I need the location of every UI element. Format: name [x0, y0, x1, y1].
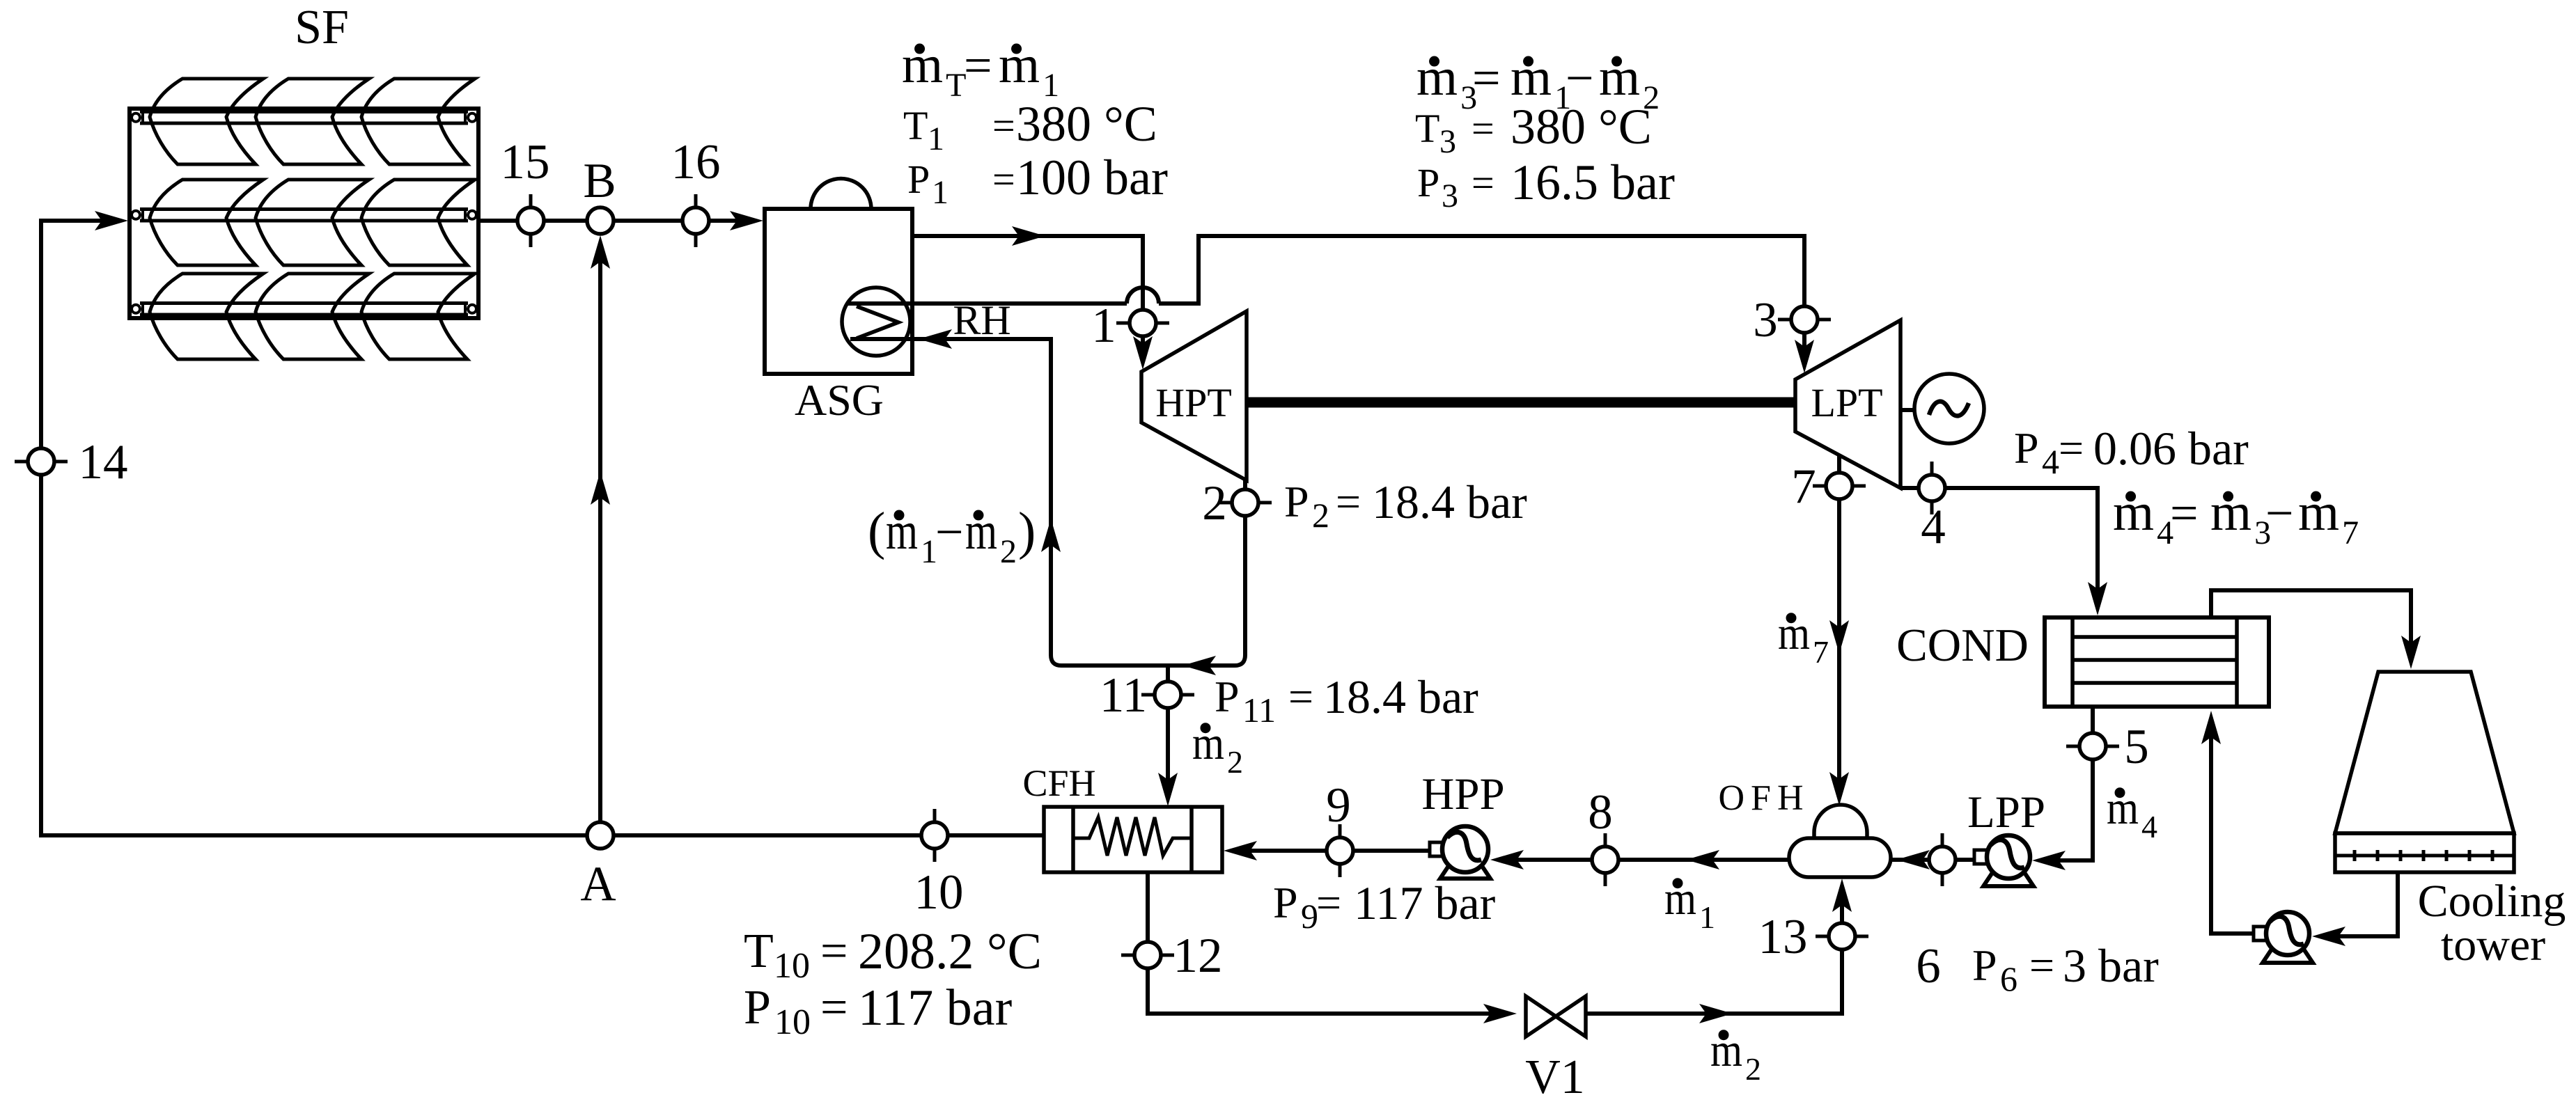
node 12	[1121, 942, 1174, 968]
svg-text:m: m	[2298, 483, 2339, 542]
svg-text:SF: SF	[295, 1, 349, 54]
turbine LPT	[1795, 320, 1900, 488]
svg-text:OFH: OFH	[1718, 778, 1809, 818]
label m2 after V1	[1710, 1023, 1761, 1087]
label 8	[1588, 785, 1613, 840]
svg-text:=: =	[2170, 485, 2199, 541]
svg-text:4: 4	[2141, 809, 2157, 844]
svg-text:15: 15	[501, 135, 550, 189]
svg-text:LPT: LPT	[1811, 380, 1882, 425]
svg-text:m: m	[999, 36, 1040, 94]
svg-text:18.4 bar: 18.4 bar	[1372, 475, 1527, 528]
pump LPP	[1974, 835, 2034, 886]
label P9=117 bar	[1273, 876, 1496, 936]
svg-text:ASG: ASG	[795, 375, 884, 425]
svg-text:3 bar: 3 bar	[2063, 939, 2159, 992]
condenser COND	[2045, 617, 2269, 707]
svg-text:8: 8	[1588, 785, 1613, 840]
node 16	[682, 194, 709, 247]
label 3	[1753, 293, 1778, 347]
node 9	[1327, 824, 1353, 877]
svg-text:11: 11	[1100, 668, 1147, 723]
svg-text:(: (	[868, 502, 885, 560]
label HPP	[1421, 769, 1504, 819]
svg-text:2: 2	[1745, 1051, 1761, 1087]
label T10=208.2C	[744, 923, 1042, 986]
label CFH	[1022, 762, 1095, 804]
label 15	[501, 135, 550, 189]
label HPT	[1155, 380, 1232, 425]
label 2	[1202, 476, 1227, 530]
svg-text:P: P	[1284, 477, 1309, 526]
svg-text:11: 11	[1242, 691, 1276, 730]
solar field SF	[130, 79, 478, 359]
label (m1-m2)	[868, 502, 1036, 570]
svg-text:4: 4	[2042, 442, 2059, 481]
node 1	[1116, 310, 1169, 336]
svg-text:T: T	[744, 924, 774, 978]
svg-text:=: =	[2059, 423, 2084, 473]
label 7	[1791, 459, 1816, 514]
svg-text:A: A	[580, 857, 616, 911]
svg-text:2: 2	[1202, 476, 1227, 530]
svg-text:9: 9	[1326, 778, 1351, 833]
svg-text:COND: COND	[1896, 620, 2029, 671]
label P2=18.4 bar	[1284, 475, 1527, 535]
wire: ASG main steam line to node 1 and HPT	[912, 226, 1153, 370]
valve V1	[1526, 996, 1586, 1037]
cooling water pump	[2254, 912, 2313, 963]
node 14	[15, 448, 68, 475]
wire: OFH outlet to node 8 and HPP	[1490, 850, 1789, 869]
label 10	[914, 865, 964, 920]
open feedwater heater OFH	[1789, 805, 1891, 877]
svg-text:m: m	[965, 502, 997, 560]
node 6	[1929, 833, 1956, 886]
node 7	[1813, 473, 1866, 499]
svg-text:380 °C: 380 °C	[1511, 99, 1652, 155]
label P10=117bar	[744, 979, 1012, 1042]
pump HPP	[1430, 826, 1490, 879]
label LPT	[1811, 380, 1882, 425]
svg-text:=: =	[1336, 477, 1361, 526]
label 11	[1100, 668, 1147, 723]
svg-text:6: 6	[1916, 939, 1941, 993]
label B	[583, 154, 616, 208]
svg-text:117 bar: 117 bar	[1354, 876, 1496, 929]
label m7	[1778, 606, 1829, 670]
svg-text:−: −	[2265, 485, 2294, 541]
svg-text:P: P	[2014, 423, 2039, 473]
wire: feedwater main line CFH to A to SF inlet	[41, 211, 1044, 835]
svg-text:=: =	[1316, 878, 1341, 927]
svg-text:3: 3	[1753, 293, 1778, 347]
svg-text:): )	[1018, 502, 1036, 560]
label P11=18.4 bar	[1215, 670, 1478, 730]
svg-text:380 °C: 380 °C	[1016, 96, 1157, 152]
wire: cold reheat return line to RH coil	[850, 329, 1245, 675]
wire: V1 outlet m2 line to node 13 and OFH	[1586, 879, 1852, 1023]
wire: condensate line node 5 to LPP	[2032, 707, 2093, 870]
svg-text:m: m	[1416, 48, 1458, 107]
wire: LPT extraction m7 to OFH	[1829, 455, 1849, 805]
svg-text:18.4 bar: 18.4 bar	[1323, 670, 1478, 723]
svg-text:T: T	[903, 103, 928, 148]
svg-text:208.2 °C: 208.2 °C	[858, 923, 1042, 980]
label RH	[953, 297, 1010, 343]
svg-text:P: P	[1273, 878, 1298, 927]
svg-text:1: 1	[932, 174, 949, 211]
reheater RH coil	[842, 288, 914, 356]
svg-text:13: 13	[1758, 910, 1808, 964]
svg-text:HPT: HPT	[1155, 380, 1232, 425]
svg-text:m: m	[886, 502, 918, 560]
svg-text:RH: RH	[953, 297, 1010, 343]
label mT=m1 T1=380C P1=100bar	[902, 36, 1168, 211]
svg-text:=: =	[1472, 50, 1501, 106]
svg-text:P: P	[1972, 940, 1997, 990]
svg-text:=: =	[1288, 672, 1313, 721]
label m1 at node 8	[1664, 872, 1715, 935]
svg-text:16: 16	[671, 135, 721, 189]
svg-text:m: m	[2113, 483, 2154, 542]
label 6	[1916, 939, 1941, 993]
svg-text:16.5 bar: 16.5 bar	[1511, 155, 1675, 210]
svg-text:4: 4	[1921, 500, 1946, 554]
label 16	[671, 135, 721, 189]
node 10	[921, 809, 948, 862]
svg-text:2: 2	[1000, 533, 1017, 570]
label 9	[1326, 778, 1351, 833]
svg-text:=: =	[820, 924, 848, 978]
svg-text:1: 1	[1091, 299, 1116, 353]
node 8	[1592, 833, 1618, 886]
wire: LPP to OFH node 6	[1891, 850, 1974, 869]
node 3	[1778, 306, 1831, 333]
label 14	[79, 435, 128, 489]
svg-text:100 bar: 100 bar	[1016, 150, 1168, 205]
svg-text:=: =	[2029, 940, 2054, 990]
label LPP	[1967, 787, 2045, 837]
node 13	[1816, 923, 1868, 950]
generator G	[1914, 374, 1984, 443]
label 4	[1921, 500, 1946, 554]
label m2 at node 11	[1192, 716, 1243, 780]
svg-text:2: 2	[1312, 496, 1329, 535]
svg-text:10: 10	[774, 946, 810, 986]
svg-text:1: 1	[928, 120, 944, 157]
wire: extraction m2 node 11 to CFH	[1158, 708, 1178, 806]
svg-text:6: 6	[2000, 959, 2017, 998]
svg-text:14: 14	[79, 435, 128, 489]
node 2	[1219, 489, 1272, 516]
svg-text:3: 3	[1439, 123, 1456, 160]
svg-text:−: −	[935, 504, 964, 560]
wire: junction drop to node 11	[1166, 666, 1170, 682]
node 4	[1919, 462, 1945, 514]
wire: LPT exhaust line node 4 to condenser	[1900, 488, 2107, 615]
svg-text:12: 12	[1173, 929, 1223, 983]
label P4=0.06 bar	[2014, 422, 2249, 481]
svg-text:=: =	[1472, 106, 1494, 151]
svg-text:=: =	[992, 157, 1015, 202]
svg-text:P: P	[907, 157, 930, 202]
svg-text:m: m	[1599, 48, 1640, 107]
svg-text:−: −	[1566, 50, 1594, 106]
node A	[587, 822, 614, 849]
svg-text:m: m	[2210, 483, 2251, 542]
label m4=m3-m7	[2113, 483, 2359, 551]
wire: cooling water condenser to tower	[2211, 590, 2421, 669]
svg-text:P: P	[1215, 672, 1240, 721]
label ASG	[795, 375, 884, 425]
label m3=m1-m2 T3=380C P3=16.5bar	[1415, 48, 1675, 214]
svg-text:tower: tower	[2441, 920, 2545, 970]
svg-text:P: P	[1417, 160, 1439, 205]
label A	[580, 857, 616, 911]
svg-text:7: 7	[2342, 514, 2359, 551]
turbine HPT	[1141, 311, 1247, 480]
svg-text:T: T	[1415, 106, 1439, 151]
wire: CFH drain node 12 to valve V1	[1148, 872, 1517, 1023]
label V1	[1525, 1050, 1585, 1102]
wire: HPT shaft to LPT	[1247, 397, 1795, 408]
svg-text:=: =	[964, 38, 992, 93]
label 12	[1173, 929, 1223, 983]
label 13	[1758, 910, 1808, 964]
node 5	[2066, 733, 2119, 759]
svg-text:V1: V1	[1525, 1050, 1585, 1102]
wire: HPP discharge node 9 to CFH	[1224, 841, 1432, 860]
svg-text:CFH: CFH	[1022, 762, 1095, 804]
svg-text:5: 5	[2124, 720, 2149, 774]
svg-text:=: =	[992, 103, 1015, 148]
cooling tower	[2335, 672, 2514, 872]
label P6=3 bar	[1972, 939, 2159, 998]
wire: cooling pump to condenser	[2201, 711, 2252, 934]
node 15	[517, 194, 544, 247]
svg-text:3: 3	[1442, 178, 1458, 214]
wire: generator connection	[1900, 408, 1914, 412]
wire: SF outlet line 15-B-16 to ASG	[478, 211, 763, 230]
svg-text:1: 1	[1699, 899, 1715, 935]
svg-text:7: 7	[1813, 634, 1829, 670]
steam generator ASG	[765, 179, 912, 375]
node B	[587, 207, 614, 234]
svg-text:m: m	[902, 36, 943, 94]
svg-text:=: =	[1472, 160, 1494, 205]
svg-text:P: P	[744, 981, 771, 1034]
svg-text:10: 10	[914, 865, 964, 920]
svg-text:117 bar: 117 bar	[858, 979, 1012, 1037]
svg-text:LPP: LPP	[1967, 787, 2045, 837]
label m4	[2107, 781, 2157, 844]
svg-text:0.06 bar: 0.06 bar	[2093, 422, 2249, 475]
closed feedwater heater CFH	[1044, 807, 1222, 872]
node 11	[1141, 682, 1194, 708]
svg-text:10: 10	[774, 1002, 811, 1042]
svg-text:HPP: HPP	[1421, 769, 1504, 819]
svg-text:7: 7	[1791, 459, 1816, 514]
label SF	[295, 1, 349, 54]
wire: bypass line node A up to node B	[591, 235, 610, 835]
svg-text:m: m	[1511, 48, 1552, 107]
label Cooling tower	[2418, 876, 2566, 970]
svg-text:=: =	[820, 981, 848, 1034]
wire: reheated steam line RH to node 3 and LPT	[848, 236, 1814, 373]
svg-text:B: B	[583, 154, 616, 208]
label COND	[1896, 620, 2029, 671]
wire: tower basin drain to cooling pump	[2312, 872, 2398, 946]
label 1	[1091, 299, 1116, 353]
label 5	[2124, 720, 2149, 774]
svg-text:2: 2	[1227, 744, 1243, 780]
label OFH	[1718, 778, 1809, 818]
